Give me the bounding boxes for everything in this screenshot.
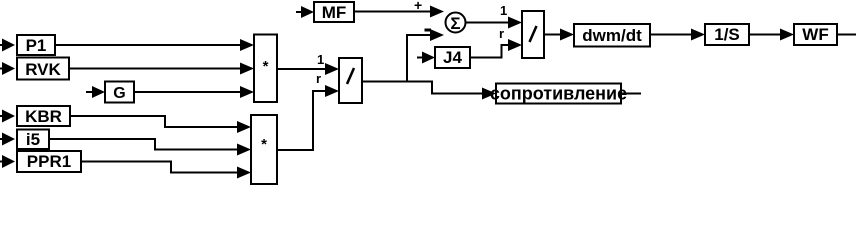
svg-text:1: 1	[500, 3, 507, 18]
svg-text:WF: WF	[802, 25, 828, 44]
wire input to KBR	[0, 110, 15, 123]
port label l (divide1 numerator)	[317, 52, 324, 67]
wire input to RVK	[0, 62, 15, 75]
wire input to MF	[296, 6, 314, 18]
svg-text:Σ: Σ	[450, 14, 460, 33]
wire sum to divide2 numerator	[466, 17, 523, 29]
svg-text:+: +	[414, 0, 422, 13]
wire i5 to product2	[49, 139, 251, 156]
wire divide1 to resistance block	[362, 82, 496, 100]
block i5	[17, 130, 49, 150]
wire input to i5	[0, 133, 15, 146]
svg-text:сопротивление: сопротивление	[490, 84, 627, 104]
port label r (divide1 denominator)	[316, 71, 321, 86]
divide block 2	[522, 11, 544, 58]
wire RVK to product1	[69, 63, 254, 75]
block KBR	[17, 106, 70, 126]
wire dwm/dt to 1/S	[650, 29, 705, 41]
block J4	[435, 47, 470, 68]
wire 1/S to WF	[749, 29, 794, 41]
block P1	[17, 35, 55, 55]
block MF	[314, 2, 354, 22]
svg-text:r: r	[499, 26, 504, 41]
wire WF output stub	[837, 34, 856, 36]
block RVK	[17, 58, 69, 80]
svg-text:1/S: 1/S	[714, 25, 740, 44]
divide block 1	[339, 58, 362, 103]
svg-text:RVK: RVK	[25, 60, 61, 79]
wire input to P1	[0, 39, 15, 52]
product block 2	[251, 115, 277, 184]
label plus sign	[414, 0, 422, 13]
svg-text:r: r	[316, 71, 321, 86]
wire KBR to product2	[70, 116, 251, 133]
block resistance (сопротивление)	[490, 84, 627, 104]
product block 1	[254, 35, 277, 103]
wire input to G	[86, 86, 105, 98]
svg-text:P1: P1	[26, 36, 47, 55]
port label l (divide2 numerator)	[500, 3, 507, 18]
summing junction S1	[446, 13, 466, 34]
block G	[105, 82, 134, 103]
svg-text:KBR: KBR	[25, 107, 62, 126]
wire branch divide1 to sum minus input	[407, 29, 444, 82]
wire resistance output stub	[621, 93, 641, 95]
block dwm/dt	[574, 24, 650, 47]
port label r (divide2 denominator)	[499, 26, 504, 41]
block 1/S	[705, 24, 749, 45]
block PPR1	[17, 151, 81, 172]
wire product1 to divide1 numerator	[277, 63, 339, 75]
wire input to J4	[417, 52, 435, 64]
svg-text:dwm/dt: dwm/dt	[582, 26, 642, 45]
svg-text:1: 1	[317, 52, 324, 67]
wire J4 to divide2 denominator	[470, 39, 522, 58]
svg-text:J4: J4	[443, 48, 462, 67]
wire P1 to product1	[55, 39, 254, 51]
svg-text:i5: i5	[26, 130, 40, 149]
block WF	[794, 24, 837, 45]
wire PPR1 to product2	[81, 162, 251, 179]
svg-text:G: G	[113, 85, 125, 102]
svg-text:PPR1: PPR1	[27, 152, 71, 171]
wire G to product1	[134, 86, 254, 98]
svg-text:*: *	[261, 136, 267, 153]
wire divide2 to dwm/dt	[544, 29, 574, 41]
wire product2 to divide1 denominator	[277, 85, 339, 150]
label minus sign	[425, 29, 432, 32]
svg-text:MF: MF	[322, 3, 347, 22]
svg-text:*: *	[263, 58, 269, 75]
wire MF to sum plus input	[354, 6, 444, 18]
wire input to PPR1	[0, 155, 15, 168]
